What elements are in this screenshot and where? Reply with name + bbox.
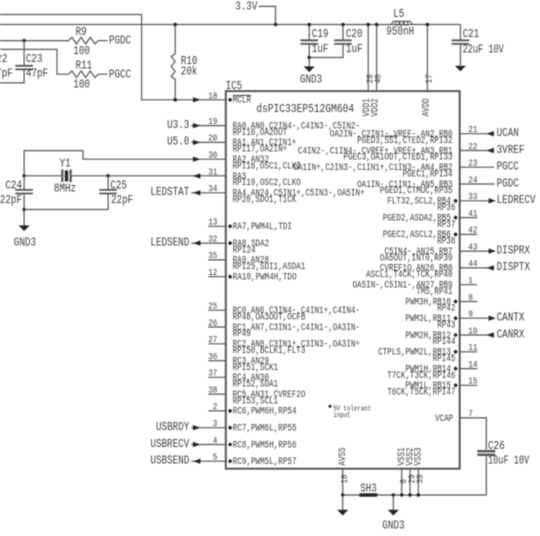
svg-text:950nH: 950nH <box>386 24 414 38</box>
svg-text:22pF: 22pF <box>0 193 22 207</box>
svg-text:PGCC: PGCC <box>109 67 131 81</box>
crystal Y1 <box>24 175 61 177</box>
svg-text:C24: C24 <box>5 179 22 193</box>
pin 24 PGDC <box>460 183 495 185</box>
pin 21 UCAN <box>460 133 495 135</box>
pin 38 RC5 <box>208 393 226 395</box>
capacitor C21 <box>459 25 461 40</box>
svg-text:32: 32 <box>208 234 217 244</box>
svg-text:USBRECV: USBRECV <box>150 437 189 451</box>
wire OSC2 net <box>108 175 226 177</box>
svg-text:25: 25 <box>208 302 217 312</box>
svg-text:LEDSTAT: LEDSTAT <box>150 185 189 199</box>
svg-text:RA10,PWM4H,TDO: RA10,PWM4H,TDO <box>233 272 297 284</box>
svg-text:3.3V: 3.3V <box>235 0 258 14</box>
svg-text:27: 27 <box>208 335 217 345</box>
pin 26 RC1 <box>208 326 226 328</box>
pin 14 PWM1H <box>460 368 478 370</box>
svg-text:22pF: 22pF <box>111 193 133 207</box>
ground (C21) <box>455 66 466 72</box>
svg-text:C22: C22 <box>0 52 7 66</box>
svg-text:3VREF: 3VREF <box>497 143 525 157</box>
pin 6 VSS1 <box>401 469 403 495</box>
pin 41 PGED2 <box>460 217 478 219</box>
ground GND3 (C24) <box>23 210 25 226</box>
svg-text:12: 12 <box>208 268 217 278</box>
svg-text:T6CK,T5CK,RPI47: T6CK,T5CK,RPI47 <box>387 387 455 399</box>
wire upper MCLR rail <box>0 15 226 100</box>
pin 28 VDD1 <box>367 25 369 92</box>
pin 2 RC6 <box>208 410 226 412</box>
pin 18 MCLR wire <box>173 98 177 102</box>
pin 19 U3.3 <box>191 125 226 127</box>
svg-text:CANTX: CANTX <box>497 311 525 325</box>
pin 4 USBRECV <box>191 444 226 446</box>
ground (AVSS) <box>342 495 344 510</box>
pin 40 VDD2 <box>376 25 378 92</box>
pin 30 RA2 <box>193 157 200 162</box>
ground GND3 (C19) <box>308 58 310 67</box>
svg-text:RA7,PWM4L,TDI: RA7,PWM4L,TDI <box>233 221 292 233</box>
pin 3 USBRDY <box>191 427 226 429</box>
svg-text:RC9,PWM5L,RP57: RC9,PWM5L,RP57 <box>233 456 297 468</box>
svg-text:47pF: 47pF <box>0 67 13 81</box>
svg-text:8: 8 <box>468 293 473 303</box>
svg-text:PGDC: PGDC <box>497 176 519 190</box>
op IC5 dsPIC33EP512GM604 box <box>226 91 460 469</box>
svg-text:18: 18 <box>208 91 217 101</box>
svg-text:PGCC: PGCC <box>497 160 519 174</box>
pin 15 PWM1L <box>460 384 478 386</box>
svg-text:21: 21 <box>468 125 477 135</box>
wire OSC1 net <box>24 151 226 176</box>
svg-text:CANRX: CANRX <box>497 327 525 341</box>
net tie SH3 <box>359 493 377 496</box>
pin 8 PWM3H <box>460 301 478 303</box>
svg-text:U5.0: U5.0 <box>167 135 189 149</box>
svg-text:C26: C26 <box>488 439 505 453</box>
svg-text:GND3: GND3 <box>14 235 36 249</box>
capacitor C24 <box>23 176 25 190</box>
svg-text:20: 20 <box>208 134 217 144</box>
svg-text:USBRDY: USBRDY <box>156 420 190 434</box>
svg-text:23: 23 <box>468 159 477 169</box>
svg-text:15: 15 <box>468 377 477 387</box>
svg-text:42: 42 <box>468 226 477 236</box>
resistor R10 <box>171 25 175 100</box>
pin 13 RA7 <box>208 225 226 227</box>
svg-text:4: 4 <box>213 436 218 446</box>
svg-text:USBSEND: USBSEND <box>150 454 189 468</box>
svg-text:47pF: 47pF <box>26 67 48 81</box>
svg-text:UCAN: UCAN <box>497 126 519 140</box>
svg-text:MCLR: MCLR <box>233 95 251 107</box>
svg-text:L5: L5 <box>393 7 404 21</box>
ground GND3 (bottom) <box>392 493 396 497</box>
svg-text:R11: R11 <box>76 58 93 72</box>
svg-text:41: 41 <box>468 209 477 219</box>
svg-text:C25: C25 <box>110 179 127 193</box>
svg-text:1uF: 1uF <box>346 42 363 56</box>
pin 33 LEDRECV <box>460 200 495 202</box>
svg-text:R9: R9 <box>76 25 87 39</box>
svg-text:1: 1 <box>468 276 473 286</box>
svg-text:33: 33 <box>468 192 477 202</box>
pin 35 RA9 <box>208 259 226 261</box>
svg-text:8MHz: 8MHz <box>54 181 76 195</box>
pin 22 3VREF <box>460 150 495 152</box>
pin 44 DISPTX <box>460 267 495 269</box>
svg-text:C23: C23 <box>26 52 43 66</box>
svg-text:input: input <box>333 412 350 420</box>
wire 3.3V power rail <box>0 24 460 26</box>
svg-text:C20: C20 <box>346 27 363 41</box>
svg-text:SH3: SH3 <box>360 482 377 496</box>
svg-text:PGDC: PGDC <box>109 34 131 48</box>
capacitor C23 <box>23 41 25 66</box>
svg-text:10uF 10V: 10uF 10V <box>488 454 530 468</box>
resistor R9 <box>0 37 108 44</box>
svg-text:Y1: Y1 <box>60 157 71 171</box>
capacitor C25 <box>107 176 109 190</box>
svg-text:22: 22 <box>468 142 477 152</box>
svg-text:RC1,AN7,C3IN1-,C4IN1-,OA3IN-: RC1,AN7,C3IN1-,C4IN1-,OA3IN- <box>233 322 360 334</box>
pin 37 RC4 <box>208 376 226 378</box>
svg-text:VSS3: VSS3 <box>413 447 425 465</box>
pin 16 AVSS <box>342 469 344 495</box>
pin 7 VCAP / capacitor C26 <box>460 418 487 450</box>
pin 17 AVDD <box>426 25 428 92</box>
note 5V tolerant input <box>328 404 332 408</box>
svg-text:GND3: GND3 <box>300 73 322 87</box>
pin 31 RA3 <box>193 173 200 178</box>
pin 43 DISPRX <box>460 250 495 252</box>
pin 27 RC2 <box>208 343 226 345</box>
pin 25 RC0 <box>208 309 226 311</box>
svg-text:26: 26 <box>208 318 217 328</box>
svg-text:5: 5 <box>213 453 218 463</box>
pin 11 CTPLS <box>460 351 478 353</box>
pin 20 U5.0 <box>191 141 226 143</box>
svg-text:22uF 10V: 22uF 10V <box>463 43 505 57</box>
svg-text:100: 100 <box>73 44 90 58</box>
svg-text:AVDD: AVDD <box>420 98 432 116</box>
svg-text:C19: C19 <box>312 27 329 41</box>
svg-text:37: 37 <box>208 369 217 379</box>
pin 36 RC3 <box>208 360 226 362</box>
svg-text:AVSS: AVSS <box>337 447 349 465</box>
svg-text:9: 9 <box>468 310 473 320</box>
svg-text:38: 38 <box>208 385 217 395</box>
svg-text:DISPTX: DISPTX <box>497 260 531 274</box>
pin 39 VSS3 <box>417 469 419 495</box>
pin 10 CANRX <box>460 334 495 336</box>
svg-text:31: 31 <box>208 167 217 177</box>
pin 29 VSS2 <box>409 469 411 495</box>
svg-text:C21: C21 <box>463 27 480 41</box>
svg-text:RC6,PWM6H,RP54: RC6,PWM6H,RP54 <box>233 406 297 418</box>
svg-text:20k: 20k <box>181 65 198 79</box>
svg-text:VCAP: VCAP <box>435 413 453 425</box>
svg-text:7: 7 <box>468 409 473 419</box>
svg-text:34: 34 <box>208 184 217 194</box>
svg-text:24: 24 <box>468 175 477 185</box>
pin 12 RA10 <box>208 276 226 278</box>
svg-text:LEDSEND: LEDSEND <box>150 235 189 249</box>
svg-text:VDD2: VDD2 <box>370 98 382 116</box>
svg-text:U3.3: U3.3 <box>167 118 189 132</box>
svg-text:DISPRX: DISPRX <box>497 243 531 257</box>
pin 23 PGCC <box>460 166 495 168</box>
svg-text:1uF: 1uF <box>312 42 329 56</box>
svg-text:44: 44 <box>468 259 477 269</box>
svg-text:40: 40 <box>374 74 384 83</box>
svg-text:IC5: IC5 <box>226 79 243 93</box>
svg-text:36: 36 <box>208 352 217 362</box>
svg-text:RP20,SDO1,T1CK: RP20,SDO1,T1CK <box>233 194 297 206</box>
pin 5 USBSEND <box>191 460 226 462</box>
svg-text:RC7,PWM6L,RP55: RC7,PWM6L,RP55 <box>233 423 297 435</box>
svg-text:19: 19 <box>208 117 217 127</box>
pin 42 PGEC2 <box>460 233 478 235</box>
svg-text:39: 39 <box>416 474 426 483</box>
svg-text:10: 10 <box>468 326 477 336</box>
resistor R11 <box>0 49 108 77</box>
wire ground rail (bottom) <box>343 494 487 496</box>
svg-text:17: 17 <box>425 74 435 83</box>
svg-text:3: 3 <box>213 419 218 429</box>
inductor L5 <box>391 21 413 24</box>
svg-text:13: 13 <box>208 218 217 228</box>
capacitor C19 <box>308 25 310 40</box>
wire 3.3V label drop <box>259 6 276 24</box>
pin 1 OA5IN- <box>460 284 478 286</box>
svg-text:14: 14 <box>468 360 477 370</box>
svg-text:RC8,PWM5H,RP56: RC8,PWM5H,RP56 <box>233 439 297 451</box>
svg-text:LEDRECV: LEDRECV <box>497 193 536 207</box>
pin 32 LEDSEND <box>191 242 226 244</box>
svg-text:dsPIC33EP512GM604: dsPIC33EP512GM604 <box>256 102 354 116</box>
svg-text:16: 16 <box>340 474 350 483</box>
svg-text:GND3: GND3 <box>382 519 404 533</box>
svg-text:100: 100 <box>73 77 90 91</box>
pin 34 LEDSTAT <box>191 192 226 194</box>
svg-text:35: 35 <box>208 251 217 261</box>
svg-text:43: 43 <box>468 242 477 252</box>
svg-text:30: 30 <box>208 151 217 161</box>
pin 9 CANTX <box>460 317 495 319</box>
capacitor C20 <box>342 25 344 40</box>
svg-text:2: 2 <box>213 402 218 412</box>
svg-text:11: 11 <box>468 343 477 353</box>
